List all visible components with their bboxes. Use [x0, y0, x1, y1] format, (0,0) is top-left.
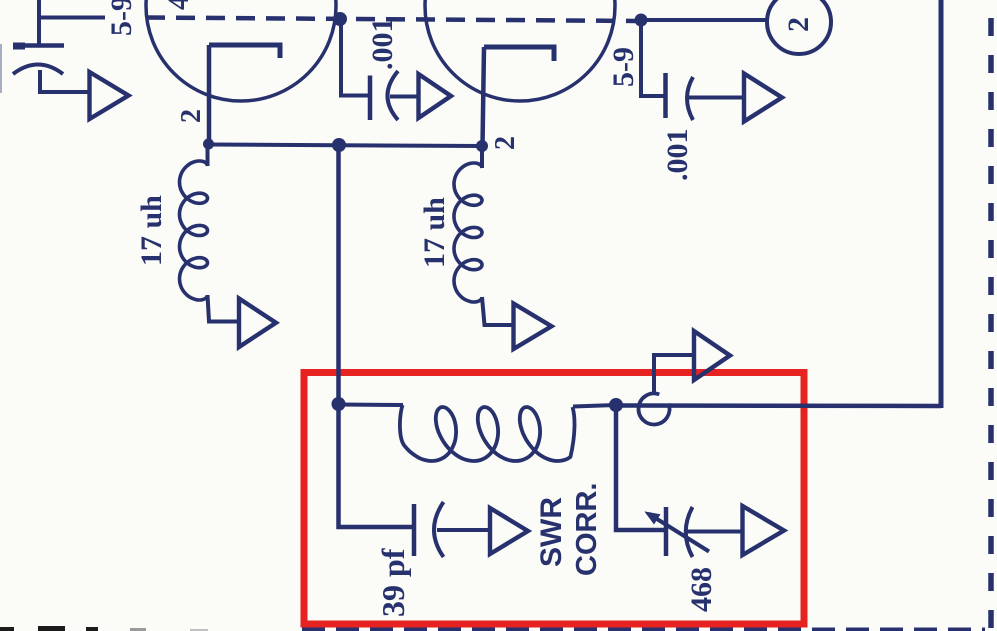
- label .001: [366, 18, 399, 71]
- highlight box: [304, 373, 804, 625]
- svg-text:.001: .001: [661, 129, 694, 182]
- wire: tank coil to node: [573, 405, 616, 407]
- terminal 2: [767, 0, 831, 54]
- inductor L1 (17 uh): [180, 144, 240, 322]
- capacitor C1 (5-9 trimmer): [13, 46, 64, 75]
- node junction (338.5,404): [332, 397, 346, 411]
- tube V1 envelope: [146, 0, 336, 101]
- wire: bus down to tank: [336, 145, 341, 404]
- svg-text:2: 2: [782, 17, 815, 32]
- wire: cathode bus: [209, 145, 483, 147]
- ground: [694, 331, 730, 380]
- svg-text:39 pf: 39 pf: [375, 548, 411, 617]
- ground: [90, 72, 129, 119]
- svg-text:2: 2: [490, 136, 521, 150]
- wire: right riser: [939, 0, 944, 408]
- svg-text:CORR.: CORR.: [571, 483, 603, 576]
- wire: C5 to ground: [686, 530, 742, 534]
- wire: feed to C3: [641, 20, 664, 96]
- ground: [743, 506, 785, 555]
- wire: node to C5: [616, 405, 664, 530]
- label 5-9 (right): [607, 47, 640, 87]
- wire: output line: [616, 403, 941, 408]
- label pin 2 (V1): [176, 109, 207, 123]
- node junction (339,145): [332, 138, 346, 152]
- wire: to tank coil: [339, 403, 404, 408]
- capacitor C2 (.001): [370, 71, 398, 120]
- label 39 pf: [375, 548, 411, 617]
- node junction (641,20): [635, 14, 648, 27]
- svg-text:SWR: SWR: [535, 497, 568, 567]
- label 17 uh (L1): [135, 195, 168, 266]
- node junction (616,405): [609, 398, 623, 412]
- cut text marks (bottom left): [0, 626, 208, 631]
- svg-text:4: 4: [162, 0, 195, 10]
- label 5-9: [105, 0, 138, 36]
- wire: feed to C2: [341, 19, 368, 96]
- svg-text:.001: .001: [366, 18, 399, 71]
- dashed heater line: [146, 18, 641, 22]
- dashed line (bottom, next figure): [302, 628, 985, 631]
- ground: [514, 304, 552, 350]
- label SWR CORR.: [535, 483, 603, 576]
- ground: [744, 74, 782, 122]
- wire: C3 to ground: [688, 96, 744, 100]
- capacitor C5 (468 variable): [645, 507, 710, 557]
- wire: node to C4: [339, 404, 413, 527]
- page edge mark: [0, 44, 2, 93]
- wire: loop to ground: [654, 355, 694, 394]
- node junction (208.5,144): [203, 139, 214, 150]
- svg-text:17 uh: 17 uh: [418, 197, 451, 268]
- wire: C1 to ground: [40, 70, 89, 92]
- inductor L2 (17 uh): [454, 146, 514, 325]
- svg-text:5-9: 5-9: [105, 0, 138, 36]
- capacitor C4 (39 pf): [414, 502, 444, 557]
- tube V2 envelope: [425, 0, 615, 101]
- node junction (340,19): [333, 12, 347, 26]
- label 17 uh (L2): [418, 197, 451, 268]
- tube V2 plate: [484, 47, 554, 61]
- inductor L3 (tank coil): [400, 405, 575, 461]
- dashed line (right edge): [988, 18, 994, 631]
- svg-text:468: 468: [685, 567, 718, 612]
- tube V1 plate: [209, 45, 280, 58]
- svg-text:17 uh: 17 uh: [135, 195, 168, 266]
- pickup loop: [639, 393, 670, 424]
- capacitor C3 (5-9): [666, 73, 694, 120]
- label 468: [685, 567, 718, 612]
- node junction (482,146): [476, 140, 488, 152]
- wire: V1 plate lead: [207, 45, 212, 144]
- wire: to terminal 2: [641, 18, 769, 22]
- label pin 2 (V2): [490, 136, 521, 150]
- wire: C4 to ground: [437, 528, 490, 532]
- label 4 (cut off): [162, 0, 195, 10]
- ground: [239, 299, 276, 348]
- label .001 (right): [661, 129, 694, 182]
- ground: [419, 74, 452, 118]
- svg-text:5-9: 5-9: [607, 47, 640, 87]
- wire: top-left feed: [39, 0, 105, 44]
- wire: C2 to ground: [390, 95, 418, 99]
- svg-text:2: 2: [176, 109, 207, 123]
- ground: [490, 508, 528, 554]
- wire: V2 plate lead: [483, 47, 485, 146]
